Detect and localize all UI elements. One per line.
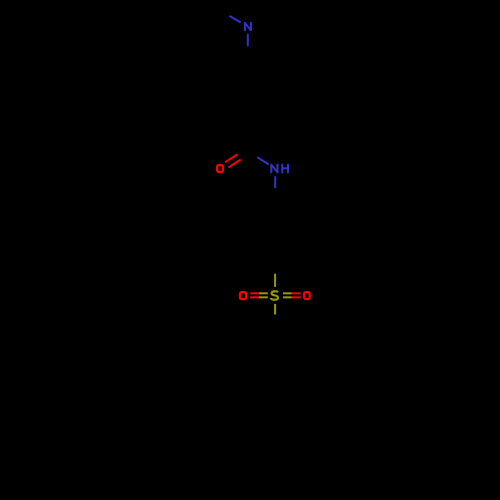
atom S (sulfonyl sulfur) xyxy=(271,291,278,299)
atom O3 (sulfonyl oxygen right) xyxy=(304,292,310,299)
bond S-CH2 (S-colored half) xyxy=(274,304,276,315)
wire: carbon skeleton (black, invisible on black background) xyxy=(207,10,302,471)
bond CH3-N1 (N-colored half) xyxy=(230,16,241,22)
bond S=O3 double bond right (O-colored halves) xyxy=(292,292,301,294)
atom N1 (tertiary amine nitrogen) xyxy=(245,22,252,31)
bond S=O2 double bond left (S-colored halves) xyxy=(259,292,268,294)
bond S=O2 double bond left (O-colored halves) xyxy=(250,292,259,294)
bond C(aryl)-S (S-colored half) xyxy=(274,274,276,287)
bond S=O3 double bond right (S-colored halves) xyxy=(283,292,292,294)
atom O2 (sulfonyl oxygen left) xyxy=(240,292,246,299)
atom N2 (amide N of NH) xyxy=(271,164,278,173)
bond C-N2 amide (N-colored half) xyxy=(257,157,268,164)
atom O1 (carbonyl oxygen) xyxy=(217,165,223,172)
atom H (amide H of NH) xyxy=(282,164,288,173)
bond C=O1 double bond (O-colored halves) xyxy=(225,154,237,162)
bond N2-C(aryl) (N-colored half) xyxy=(274,176,276,188)
bond N1-C2 (N-colored half) xyxy=(247,34,249,46)
